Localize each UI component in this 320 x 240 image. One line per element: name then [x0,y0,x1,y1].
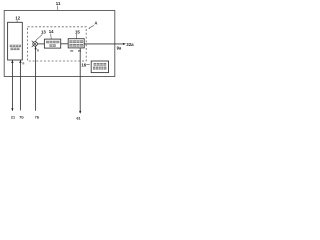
box 12 text line 1 [10,45,21,47]
svg-text:21: 21 [11,115,15,119]
arrowhead 32a [123,43,126,45]
output wire to 32a [84,43,124,45]
box 15 text line 2 [69,44,83,47]
wire from box 12 down left (21) [11,60,13,110]
svg-text:14: 14 [49,29,54,34]
arrowhead down at bottom (wire 21) [11,108,13,111]
dashed inner block A [28,27,87,61]
box 15 [68,39,84,48]
leader for 14 [50,34,53,40]
leader dash for 16 [86,64,90,66]
box 14 text line 1 [46,41,59,44]
svg-text:R: R [23,62,25,66]
svg-text:7b: 7b [35,115,40,119]
box 12 [8,22,23,60]
wire from box 12 down right (7b) [19,60,21,110]
svg-text:61: 61 [77,117,81,120]
svg-text:32a: 32a [126,42,134,47]
box 12 text line 2 [11,48,20,50]
svg-text:16: 16 [81,62,86,67]
svg-text:11: 11 [56,1,61,6]
mixer X diagonal 2 [32,42,37,47]
svg-text:9a: 9a [117,45,122,50]
box 15 text line 1 [69,40,83,43]
arrowhead down (wire 61) [79,111,81,114]
wire box 14 to box 15 [61,43,68,45]
box 16 text line 1 [94,63,107,66]
box 14 text line 2 [49,44,55,47]
mixer 13 circle [33,42,38,47]
svg-text:13: 13 [41,30,46,35]
svg-text:A: A [94,21,97,26]
box 14 [44,39,60,48]
leader arrow for A [89,25,94,28]
wire box 15 down (61) [79,48,81,113]
leader for 13 [35,34,42,41]
leader for 12 [16,20,18,22]
arrowhead up into box 12 (wire 7b) [19,60,21,63]
mixer X diagonal 1 [32,41,37,46]
svg-text:R: R [37,49,39,53]
leader for 11 [56,6,59,11]
svg-text:12: 12 [15,16,20,21]
box 16 text line 2 [93,67,106,70]
leader for 15 [75,34,77,39]
box 16 [91,61,108,73]
wire mixer to box 14 [37,43,44,45]
wire mixer down (7b) [35,46,37,111]
svg-text:15: 15 [75,30,80,35]
outer enclosure box 11 [4,11,115,77]
svg-text:7b: 7b [19,115,24,119]
arrowhead up into box 12 (wire 21) [11,60,13,63]
arrowhead up into mixer [35,46,37,49]
svg-text:Pt: Pt [71,49,74,53]
